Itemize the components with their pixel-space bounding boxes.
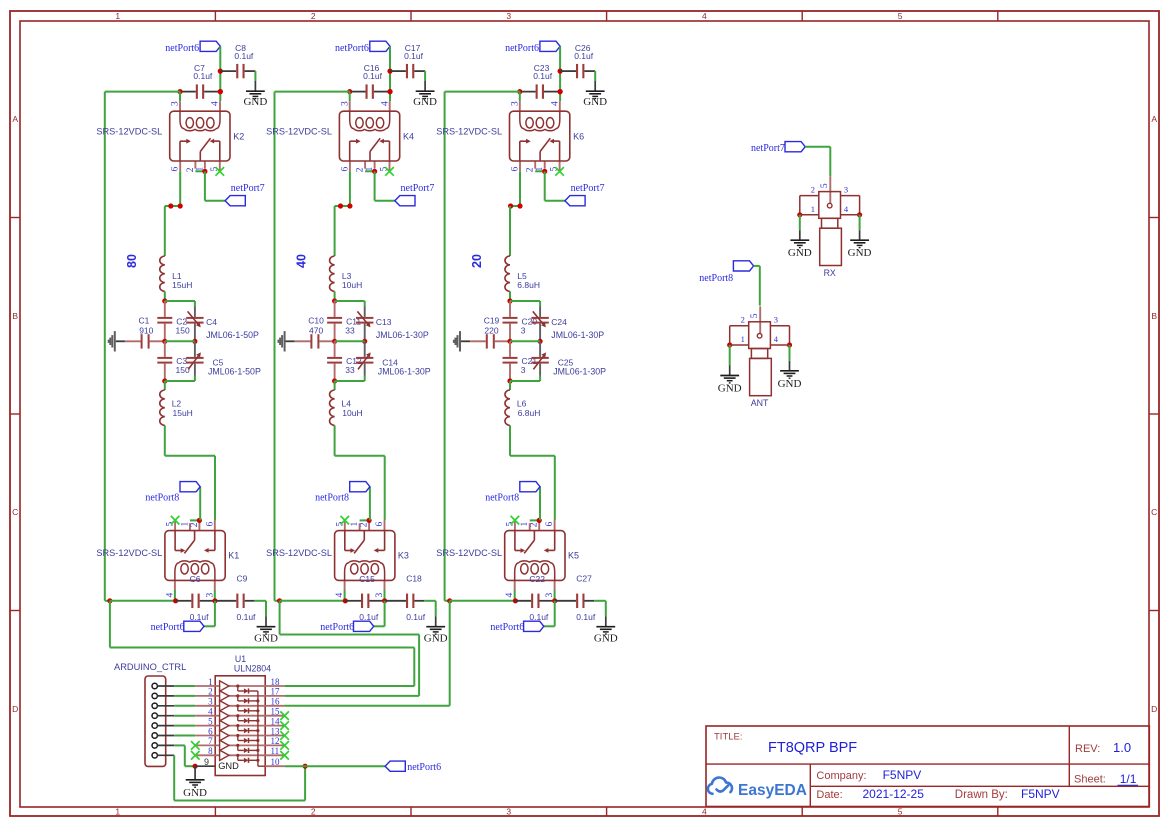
svg-text:2021-12-25: 2021-12-25 [863, 787, 925, 801]
svg-text:netPort8: netPort8 [699, 273, 733, 284]
svg-text:L6: L6 [517, 398, 527, 408]
svg-text:Sheet:: Sheet: [1074, 774, 1106, 786]
svg-text:C10: C10 [308, 316, 324, 326]
svg-text:U1: U1 [235, 654, 246, 664]
svg-text:0.1uf: 0.1uf [363, 71, 383, 81]
svg-text:17: 17 [271, 687, 281, 697]
svg-text:6: 6 [375, 522, 385, 527]
svg-text:netPort6: netPort6 [151, 622, 185, 633]
svg-text:2: 2 [811, 184, 815, 194]
svg-text:A: A [12, 114, 18, 124]
svg-text:4: 4 [550, 101, 560, 106]
svg-text:2: 2 [311, 807, 316, 817]
svg-text:0.1uf: 0.1uf [529, 612, 549, 622]
svg-text:150: 150 [176, 325, 190, 335]
svg-text:K4: K4 [403, 132, 414, 142]
svg-text:GND: GND [243, 96, 267, 108]
svg-text:netPort8: netPort8 [145, 493, 179, 504]
svg-text:GND: GND [583, 96, 607, 108]
svg-text:GND: GND [594, 632, 618, 644]
svg-text:netPort8: netPort8 [315, 493, 349, 504]
svg-text:A: A [1151, 114, 1157, 124]
svg-text:JML06-1-50P: JML06-1-50P [206, 330, 259, 340]
svg-text:SRS-12VDC-SL: SRS-12VDC-SL [436, 126, 502, 136]
svg-text:B: B [12, 311, 18, 321]
svg-text:2: 2 [530, 522, 540, 527]
svg-text:9: 9 [204, 757, 209, 767]
svg-text:6: 6 [340, 167, 350, 172]
svg-text:150: 150 [176, 365, 190, 375]
svg-text:6: 6 [205, 522, 215, 527]
svg-text:0.1uf: 0.1uf [237, 612, 257, 622]
svg-text:15: 15 [271, 707, 281, 717]
svg-text:1: 1 [811, 204, 815, 214]
svg-text:15uH: 15uH [173, 408, 193, 418]
svg-text:1: 1 [180, 522, 190, 527]
svg-text:0.1uf: 0.1uf [406, 612, 426, 622]
svg-text:0.1uf: 0.1uf [404, 51, 424, 61]
svg-text:L4: L4 [342, 398, 352, 408]
svg-text:3: 3 [208, 697, 213, 707]
svg-text:220: 220 [484, 325, 498, 335]
svg-text:4: 4 [380, 101, 390, 106]
svg-text:6: 6 [545, 522, 555, 527]
svg-text:RX: RX [824, 268, 836, 278]
svg-text:3: 3 [521, 325, 526, 335]
svg-text:C15: C15 [359, 574, 375, 584]
svg-text:10uH: 10uH [342, 408, 362, 418]
svg-text:3: 3 [506, 807, 511, 817]
svg-text:8: 8 [208, 746, 213, 756]
svg-text:2: 2 [186, 167, 196, 172]
svg-text:JML06-1-50P: JML06-1-50P [208, 367, 261, 377]
svg-text:0.1uf: 0.1uf [234, 51, 254, 61]
svg-text:4: 4 [211, 101, 221, 106]
svg-text:Date:: Date: [816, 789, 842, 801]
svg-text:0.1uf: 0.1uf [533, 71, 553, 81]
svg-text:1/1: 1/1 [1120, 772, 1137, 786]
svg-text:ARDUINO_CTRL: ARDUINO_CTRL [114, 662, 186, 672]
svg-text:5: 5 [898, 807, 903, 817]
svg-text:ANT: ANT [751, 398, 769, 408]
svg-text:netPort6: netPort6 [490, 622, 524, 633]
svg-text:3: 3 [511, 101, 521, 106]
svg-text:4: 4 [702, 807, 707, 817]
svg-text:L2: L2 [172, 398, 182, 408]
svg-text:2: 2 [208, 687, 213, 697]
svg-text:3: 3 [171, 101, 181, 106]
svg-text:C6: C6 [190, 574, 201, 584]
svg-text:Company:: Company: [816, 770, 866, 782]
svg-text:910: 910 [139, 325, 153, 335]
svg-text:SRS-12VDC-SL: SRS-12VDC-SL [96, 548, 162, 558]
svg-text:GND: GND [788, 247, 812, 259]
svg-text:13: 13 [271, 726, 281, 736]
svg-text:33: 33 [345, 365, 355, 375]
svg-text:2: 2 [190, 522, 200, 527]
svg-text:0.1uf: 0.1uf [576, 612, 596, 622]
svg-text:6: 6 [208, 726, 213, 736]
svg-text:F5NPV: F5NPV [883, 768, 922, 782]
svg-text:C: C [1151, 507, 1157, 517]
svg-text:4: 4 [844, 204, 849, 214]
svg-text:JML06-1-30P: JML06-1-30P [378, 367, 431, 377]
svg-text:netPort6: netPort6 [505, 43, 539, 54]
svg-text:GND: GND [718, 383, 742, 395]
svg-text:SRS-12VDC-SL: SRS-12VDC-SL [266, 126, 332, 136]
svg-text:K3: K3 [398, 550, 409, 560]
svg-text:K5: K5 [568, 550, 579, 560]
svg-text:5: 5 [820, 183, 830, 188]
svg-text:5: 5 [750, 313, 760, 318]
svg-text:TITLE:: TITLE: [714, 732, 743, 743]
svg-text:ULN2804: ULN2804 [234, 663, 271, 673]
svg-text:K2: K2 [233, 132, 244, 142]
svg-text:C9: C9 [237, 574, 248, 584]
svg-text:14: 14 [271, 716, 281, 726]
svg-text:C27: C27 [576, 574, 592, 584]
svg-text:F5NPV: F5NPV [1021, 787, 1060, 801]
svg-text:C19: C19 [484, 316, 500, 326]
svg-text:C24: C24 [551, 317, 567, 327]
svg-text:GND: GND [424, 632, 448, 644]
svg-text:1: 1 [115, 807, 120, 817]
svg-text:C1: C1 [139, 316, 150, 326]
svg-text:3: 3 [521, 365, 526, 375]
svg-text:1: 1 [520, 522, 530, 527]
svg-text:C22: C22 [529, 574, 545, 584]
svg-text:C4: C4 [206, 317, 217, 327]
svg-text:1: 1 [741, 334, 745, 344]
svg-text:40: 40 [295, 254, 309, 268]
svg-text:0.1uf: 0.1uf [193, 71, 213, 81]
svg-text:0.1uf: 0.1uf [190, 612, 210, 622]
svg-text:K1: K1 [228, 550, 239, 560]
svg-text:6.8uH: 6.8uH [517, 280, 540, 290]
svg-text:Drawn By:: Drawn By: [955, 789, 1008, 801]
svg-text:FT8QRP BPF: FT8QRP BPF [768, 740, 857, 756]
svg-text:0.1uf: 0.1uf [359, 612, 379, 622]
svg-text:7: 7 [208, 736, 213, 746]
svg-text:SRS-12VDC-SL: SRS-12VDC-SL [436, 548, 502, 558]
svg-text:470: 470 [309, 325, 323, 335]
svg-text:netPort6: netPort6 [407, 762, 441, 773]
svg-text:4: 4 [702, 11, 707, 21]
svg-text:netPort6: netPort6 [320, 622, 354, 633]
svg-text:netPort6: netPort6 [165, 43, 199, 54]
svg-text:3: 3 [774, 315, 778, 325]
svg-text:12: 12 [271, 736, 280, 746]
svg-text:netPort6: netPort6 [335, 43, 369, 54]
svg-text:JML06-1-30P: JML06-1-30P [551, 330, 604, 340]
svg-text:2: 2 [311, 11, 316, 21]
svg-text:netPort7: netPort7 [401, 183, 435, 194]
svg-text:33: 33 [345, 325, 355, 335]
svg-text:GND: GND [413, 96, 437, 108]
svg-text:netPort8: netPort8 [485, 493, 519, 504]
svg-text:1: 1 [350, 522, 360, 527]
svg-text:15uH: 15uH [172, 280, 192, 290]
svg-text:11: 11 [271, 746, 280, 756]
svg-text:netPort7: netPort7 [751, 143, 785, 154]
svg-text:D: D [12, 704, 18, 714]
svg-text:SRS-12VDC-SL: SRS-12VDC-SL [96, 126, 162, 136]
svg-text:GND: GND [848, 247, 872, 259]
svg-text:GND: GND [183, 787, 207, 799]
svg-text:C18: C18 [406, 574, 422, 584]
svg-text:10: 10 [271, 757, 281, 767]
svg-text:3: 3 [340, 101, 350, 106]
svg-text:4: 4 [208, 707, 213, 717]
svg-text:2: 2 [526, 167, 536, 172]
svg-text:10uH: 10uH [342, 280, 362, 290]
svg-text:SRS-12VDC-SL: SRS-12VDC-SL [266, 548, 332, 558]
svg-text:netPort7: netPort7 [231, 183, 265, 194]
svg-text:1: 1 [115, 11, 120, 21]
svg-text:2: 2 [356, 167, 366, 172]
svg-text:netPort7: netPort7 [571, 183, 605, 194]
svg-text:B: B [1151, 311, 1157, 321]
svg-text:GND: GND [254, 632, 278, 644]
svg-text:6: 6 [171, 167, 181, 172]
svg-text:JML06-1-30P: JML06-1-30P [553, 367, 606, 377]
svg-text:C: C [12, 507, 18, 517]
svg-text:6: 6 [511, 167, 521, 172]
svg-text:2: 2 [360, 522, 370, 527]
svg-text:0.1uf: 0.1uf [574, 51, 594, 61]
svg-text:C13: C13 [376, 317, 392, 327]
svg-text:1: 1 [208, 677, 213, 687]
svg-text:5: 5 [898, 11, 903, 21]
svg-text:5: 5 [208, 716, 213, 726]
svg-text:2: 2 [741, 315, 745, 325]
svg-text:3: 3 [506, 11, 511, 21]
svg-text:D: D [1151, 704, 1157, 714]
svg-text:20: 20 [470, 254, 484, 268]
svg-text:18: 18 [271, 677, 281, 687]
svg-text:EasyEDA: EasyEDA [738, 782, 807, 799]
svg-text:GND: GND [778, 378, 802, 390]
svg-text:6.8uH: 6.8uH [518, 408, 541, 418]
svg-text:REV:: REV: [1075, 743, 1100, 755]
svg-text:16: 16 [271, 697, 281, 707]
svg-text:1.0: 1.0 [1113, 740, 1131, 755]
svg-text:4: 4 [774, 334, 779, 344]
svg-text:80: 80 [125, 254, 139, 268]
svg-text:JML06-1-30P: JML06-1-30P [376, 330, 429, 340]
svg-text:GND: GND [218, 761, 239, 771]
svg-text:3: 3 [844, 184, 848, 194]
svg-text:K6: K6 [573, 132, 584, 142]
